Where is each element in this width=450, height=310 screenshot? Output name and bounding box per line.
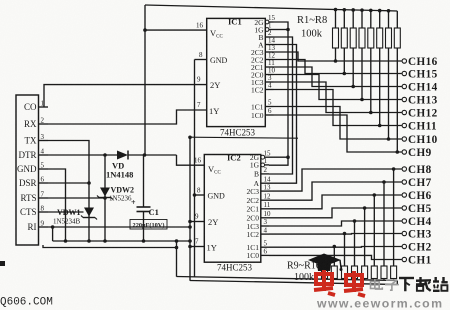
watermark red char 2 <box>344 271 365 296</box>
wire IC1 1C2 to CH11 <box>274 90 402 126</box>
wire IC2 2C1 to CH6 <box>269 195 402 209</box>
connector J1 DB9 body <box>16 95 39 245</box>
node terminal CH15 <box>402 68 437 80</box>
wire mux select vertical x190 <box>189 137 191 280</box>
label C1 value 220uF(10V) <box>130 220 167 230</box>
node RI drop <box>51 225 55 229</box>
IC2 pin 5 1C1 <box>246 239 269 252</box>
IC2 pin 4 1C2 <box>246 226 269 239</box>
watermark text zi <box>385 280 399 290</box>
IC2 pin 2 B <box>254 166 269 179</box>
watermark graduation cap logo <box>308 254 343 272</box>
node 1Y tie <box>188 245 192 249</box>
resistor R13 100k <box>362 206 368 279</box>
node IC2 GND tie <box>193 193 197 197</box>
node CH10 ext <box>188 136 192 140</box>
wire to IC2 1Y pin7 <box>190 246 204 248</box>
IC2 pin 1 1G <box>250 157 269 170</box>
watermark text xia <box>399 278 414 291</box>
wire IC1 2C2 to CH15 <box>274 60 402 74</box>
node C1/rail <box>142 239 146 243</box>
resistor R8 100k <box>394 11 400 154</box>
wire to IC1 Vcc pin16 <box>145 29 207 31</box>
IC1 pin 14 A <box>258 37 275 50</box>
IC1 pin 2 B <box>258 29 273 42</box>
edge artifact <box>0 261 5 266</box>
wire VCC node to IC2 Vcc pin16 <box>177 155 205 165</box>
IC1 pin 15 2G <box>254 14 275 27</box>
wire to IC2 2Y pin9 <box>190 221 204 223</box>
resistor R9 100k <box>322 258 328 280</box>
watermark text zai <box>416 277 431 291</box>
resistor R1 100k <box>333 8 339 63</box>
wire CH10 left extension <box>190 137 298 138</box>
wire IC2 2C2 to CH7 <box>269 182 402 200</box>
connector pin 8 CTS <box>20 205 48 218</box>
wire TX to VDW1 branch <box>48 141 89 242</box>
wire DTR to diode VD <box>48 154 117 156</box>
paper noise <box>0 0 1 1</box>
connector pin 7 RTS <box>21 191 48 204</box>
IC1 pin 12 2C2 <box>251 52 276 65</box>
zener VDW1 <box>81 208 97 220</box>
node terminal CH4 <box>402 216 431 228</box>
common rail (negative) <box>53 240 190 242</box>
wire IC1 1C1 to CH10 <box>274 107 402 140</box>
resistor R5 100k <box>368 9 374 115</box>
IC2 pin 6 1C0 <box>246 248 269 261</box>
node terminal CH13 <box>402 94 437 106</box>
resistor R4 100k <box>359 8 365 101</box>
IC2 pin 15 2G <box>250 149 271 162</box>
node terminal CH9 <box>402 147 431 159</box>
resistor R7 100k <box>386 9 392 141</box>
IC2 pin 13 2C3 <box>246 183 271 196</box>
node terminal CH7 <box>402 177 431 189</box>
node terminal CH1 <box>402 254 431 266</box>
diode VD 1N4148 <box>117 151 128 160</box>
resistor R10 100k <box>331 245 337 280</box>
IC1 pin 6 1C0 <box>251 107 274 120</box>
wire select B bus <box>269 37 293 174</box>
node terminal CH8 <box>402 164 431 176</box>
node RI tie <box>188 225 192 229</box>
IC1 pin 13 2C3 <box>251 44 276 57</box>
IC2 pin 14 A <box>254 175 271 188</box>
wire under connector <box>43 245 177 248</box>
watermark red char 1 <box>314 270 335 295</box>
wire VD cathode to VCC node <box>128 154 177 156</box>
wire IC1 2C1 to CH14 <box>274 67 402 87</box>
resistor R11 100k <box>342 232 348 280</box>
wire IC2 2C0 to CH5 <box>269 208 402 218</box>
wire rail drop <box>176 241 178 277</box>
watermark text dian <box>371 279 383 289</box>
IC1 pin 11 2C1 <box>251 59 275 72</box>
wire IC1 1C3 to CH12 <box>274 82 402 113</box>
IC2 pin 11 2C1 <box>246 201 270 214</box>
IC1 pin 3 1C3 <box>251 74 274 87</box>
node terminal CH14 <box>402 81 437 93</box>
resistor R15 100k <box>381 180 387 279</box>
op IC2 74HC253 body <box>204 155 260 263</box>
node DTR/VDW2 junction <box>103 153 107 157</box>
op IC1 74HC253 body <box>207 18 266 126</box>
connector pin 2 RX <box>24 117 48 130</box>
resistor R6 100k <box>377 9 383 128</box>
wire RTS to VDW2 line <box>48 197 105 199</box>
resistor R12 100k <box>352 219 358 279</box>
node DSR/VDW1 <box>87 181 91 185</box>
resistor R2 100k <box>341 8 347 75</box>
IC1 pin 1 1G <box>254 22 273 35</box>
wire RI to mux select <box>48 226 190 228</box>
wire RX to IC1 1Y <box>48 110 207 124</box>
IC1 pin 10 2C0 <box>251 67 276 80</box>
wire IC2 2G stub tie <box>269 156 288 158</box>
connector pin 1 CO <box>24 100 48 113</box>
node 2Y tie <box>188 220 192 224</box>
IC1 pin 5 1C1 <box>251 99 274 112</box>
bus rail right join <box>396 281 398 285</box>
IC2 pin8 GND <box>195 194 205 196</box>
wire IC2 1C3 to CH4 <box>269 221 402 226</box>
connector pin 4 DTR <box>19 148 49 161</box>
bottom bus rail 2 <box>190 281 397 285</box>
zener VDW2 <box>97 188 113 200</box>
IC2 pin 12 2C2 <box>246 192 271 205</box>
connector pin 9 RI <box>28 220 49 233</box>
resistor R14 100k <box>371 193 377 279</box>
node under-connector tie <box>175 246 179 250</box>
wire IC2 1C0 to CH1 <box>269 255 402 259</box>
wire CO to IC1 2Y <box>44 85 207 107</box>
node GND/rail <box>64 239 68 243</box>
IC1 pin8 GND <box>195 59 207 61</box>
wire DSR to VDW1 line <box>48 182 89 184</box>
node 1G tie <box>286 28 290 32</box>
node terminal CH5 <box>402 203 431 215</box>
node rail drop to bottom bus <box>175 239 179 243</box>
IC2 pin 10 2C0 <box>246 210 271 223</box>
watermark text zhan <box>433 277 448 291</box>
wire CTS <box>48 211 84 213</box>
wire IC1 GND long drop <box>194 60 196 278</box>
wire IC1 2G/1G tie to IC2 <box>269 22 288 165</box>
node terminal CH6 <box>402 190 431 202</box>
node terminal CH10 <box>402 134 437 146</box>
connector pin 5 GND <box>17 162 48 175</box>
bottom bus rail 1 <box>177 277 398 281</box>
wire select A bus <box>269 45 297 184</box>
node VDW2/rail <box>103 239 107 243</box>
node terminal CH16 <box>402 56 437 68</box>
node IC2 2G tie <box>286 155 290 159</box>
node VDW1/rail <box>87 239 91 243</box>
wire IC2 1C2 to CH3 <box>269 233 402 236</box>
node rail tie <box>188 239 192 243</box>
wire IC1 1C0 to CH9 <box>274 115 402 152</box>
node IC1 Vcc tap <box>143 28 147 32</box>
node terminal CH2 <box>402 241 431 253</box>
node terminal CH3 <box>402 228 431 240</box>
resistor R16 100k <box>391 167 397 279</box>
wire RI drop to common rail <box>52 227 54 241</box>
node VCC rail / C1 top <box>143 153 147 157</box>
wire IC2 2C3 to CH8 <box>269 169 402 191</box>
node terminal CH11 <box>402 120 437 132</box>
connector pin 3 TX <box>25 133 49 146</box>
wire VDW2 branch <box>104 155 106 241</box>
resistor R3 100k <box>350 8 356 88</box>
wire IC1 2C3 to CH16 <box>274 52 402 61</box>
wire IC2 1C1 to CH2 <box>269 246 402 249</box>
vcc rail vertical <box>144 5 146 155</box>
wire GND drop <box>48 169 66 241</box>
node terminal CH12 <box>402 107 437 119</box>
wire IC1 1G join <box>274 29 289 31</box>
node RTS/VDW2 <box>103 196 107 200</box>
capacitor C1 <box>137 155 151 241</box>
IC2 pin 3 1C3 <box>246 218 269 231</box>
vcc top bus to resistor bank <box>145 5 397 11</box>
IC1 pin 4 1C2 <box>251 82 274 95</box>
wire IC1 2C0 to CH13 <box>274 75 402 100</box>
connector pin 6 DSR <box>19 176 48 189</box>
